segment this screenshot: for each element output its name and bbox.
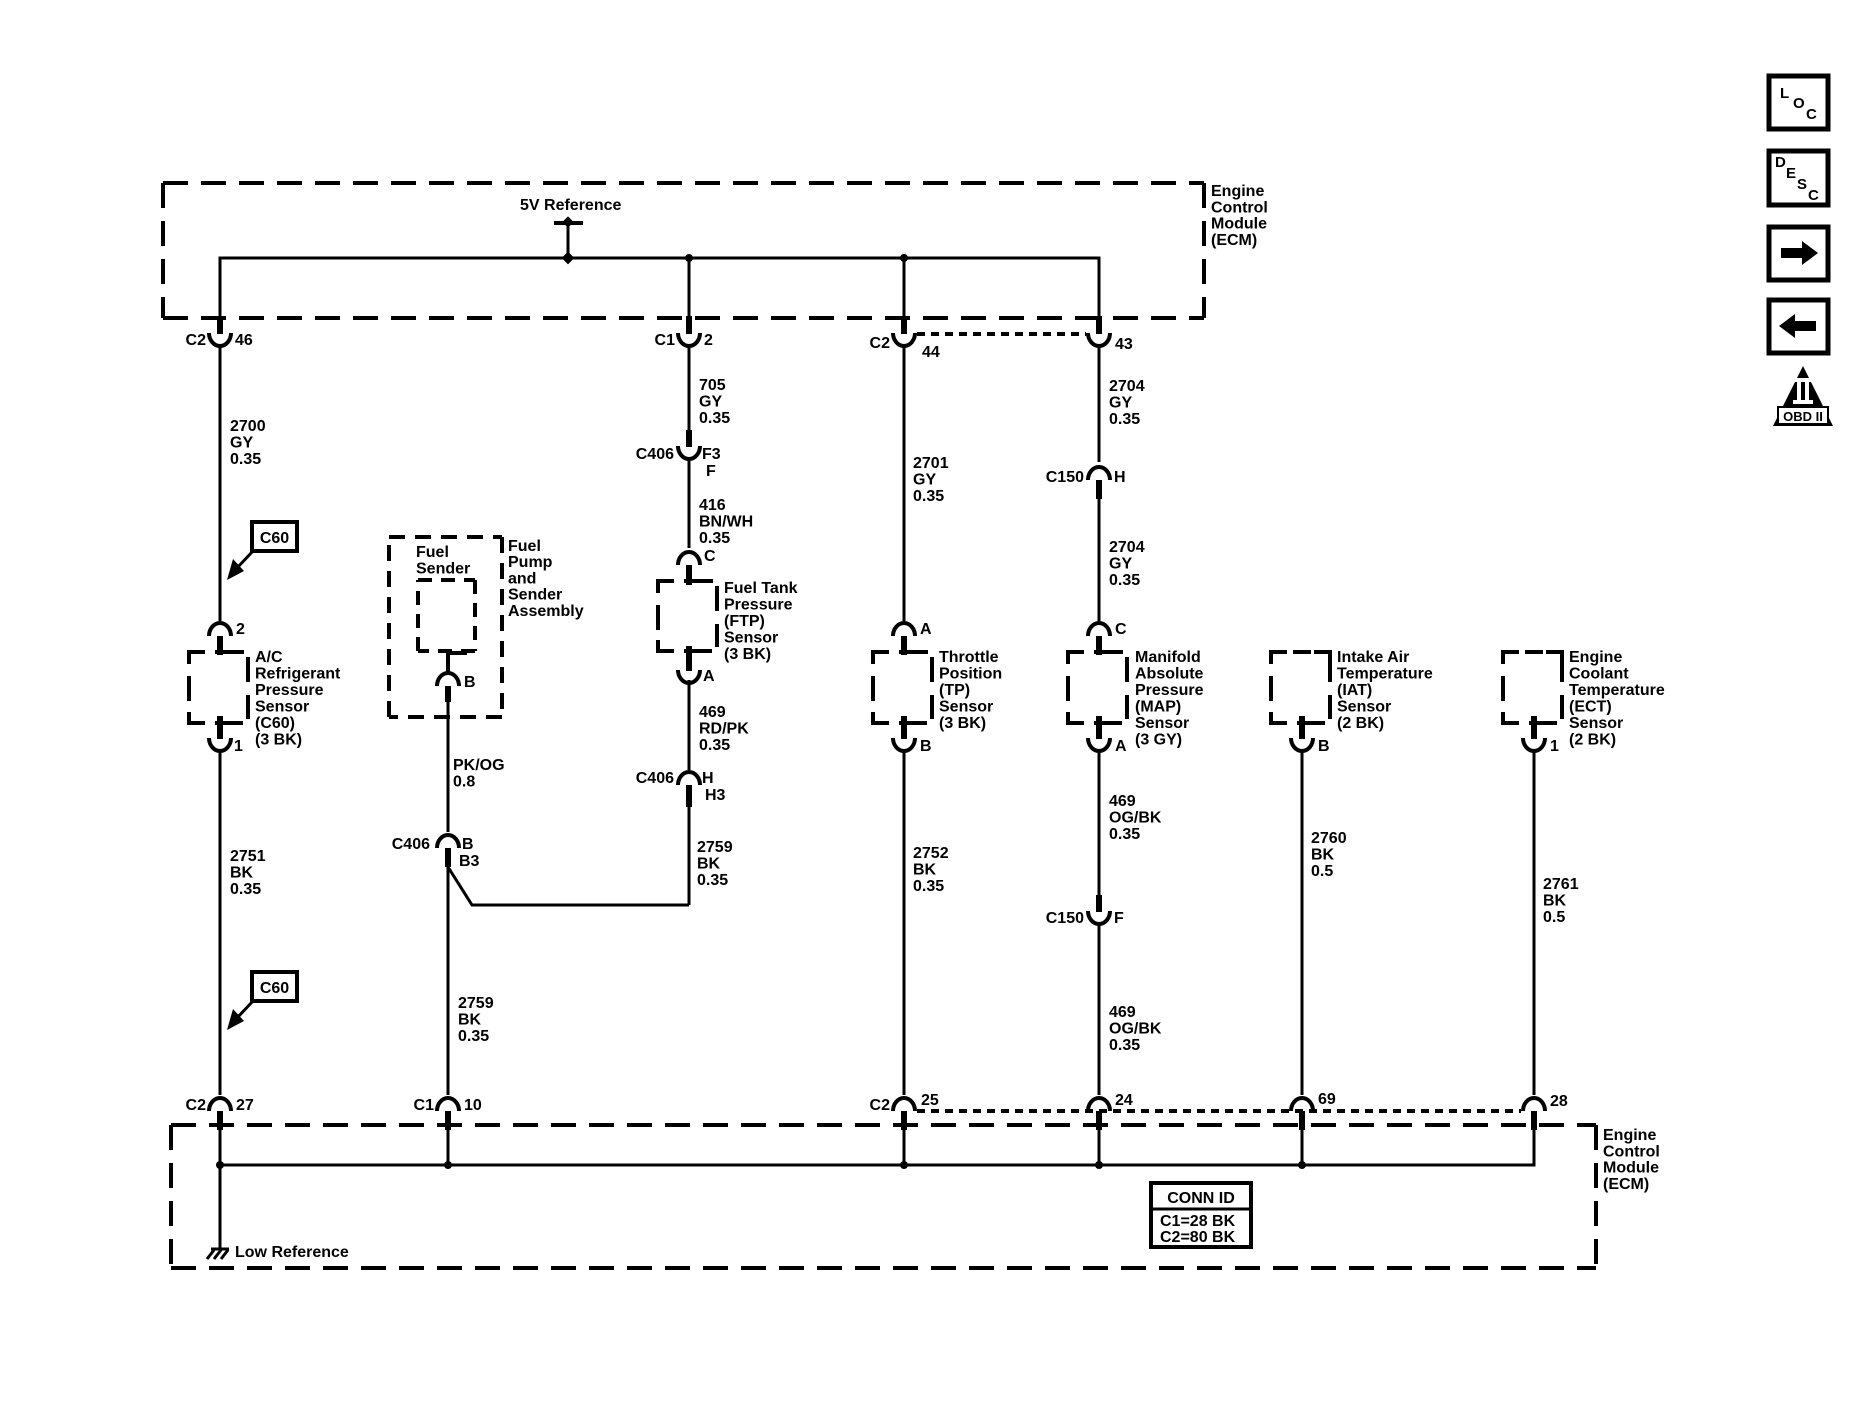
wire 469 OG/BK lower	[1098, 924, 1101, 1095]
svg-text:0.35: 0.35	[1109, 411, 1140, 428]
svg-text:GY: GY	[913, 472, 936, 489]
svg-text:C: C	[1115, 621, 1127, 638]
connector C406 B	[437, 835, 459, 848]
svg-text:C2: C2	[186, 332, 207, 349]
svg-text:(FTP): (FTP)	[724, 613, 765, 630]
connector C at MAP sensor	[1088, 623, 1110, 636]
svg-text:Absolute: Absolute	[1135, 666, 1204, 683]
connector C1 pin 10	[437, 1098, 459, 1111]
svg-text:O: O	[1793, 95, 1805, 112]
connector B at IAT sensor	[1299, 716, 1305, 739]
svg-text:0.35: 0.35	[913, 878, 944, 895]
svg-text:D: D	[1775, 154, 1786, 171]
IAT sensor dashed box	[1271, 652, 1287, 664]
svg-text:OBD II: OBD II	[1783, 409, 1823, 424]
svg-text:Temperature: Temperature	[1569, 682, 1665, 699]
svg-text:C150: C150	[1046, 910, 1084, 927]
C60 callout box 2	[252, 972, 297, 1001]
wire 2759 BK col2	[447, 867, 450, 1095]
connector B fuel sender	[437, 673, 459, 686]
svg-text:Sensor: Sensor	[1135, 715, 1189, 732]
svg-text:GY: GY	[1109, 395, 1132, 412]
svg-text:469: 469	[699, 704, 726, 721]
svg-text:BK: BK	[458, 1012, 482, 1029]
next arrow button	[1769, 227, 1828, 280]
wire sender to connector B	[448, 653, 467, 675]
svg-text:Throttle: Throttle	[939, 649, 999, 666]
svg-text:0.8: 0.8	[453, 774, 475, 791]
dotted link 25-24-69-28	[917, 1109, 1521, 1113]
back arrow button	[1769, 300, 1828, 353]
svg-text:L: L	[1780, 85, 1789, 102]
svg-text:BK: BK	[1543, 893, 1567, 910]
svg-text:0.35: 0.35	[230, 451, 261, 468]
wire 2704 GY upper	[1098, 347, 1101, 462]
connector A at FTP sensor	[686, 646, 692, 671]
svg-text:2760: 2760	[1311, 830, 1347, 847]
svg-text:C60: C60	[260, 530, 289, 547]
svg-text:Sender: Sender	[508, 587, 562, 604]
connector pin 69	[1291, 1098, 1313, 1111]
svg-text:C150: C150	[1046, 469, 1084, 486]
svg-text:H3: H3	[705, 787, 726, 804]
MAP sensor dashed box	[1068, 652, 1084, 664]
wire 2751 BK	[219, 751, 222, 1095]
wire 2760 BK	[1301, 751, 1304, 1095]
svg-text:0.35: 0.35	[697, 872, 728, 889]
svg-text:C406: C406	[636, 770, 674, 787]
connector C1 pin 2	[686, 316, 692, 334]
svg-text:B: B	[920, 738, 932, 755]
wire to ground	[219, 1165, 222, 1249]
wire 2759 BK col3	[688, 806, 691, 905]
wire C2-44 drop from bus	[903, 258, 906, 318]
connector 1 at A/C sensor	[217, 716, 223, 739]
connector C150 H	[1088, 467, 1110, 480]
svg-text:69: 69	[1318, 1091, 1336, 1108]
connector A at TP sensor	[893, 623, 915, 636]
svg-text:2: 2	[236, 621, 245, 638]
dotted link 44-43	[917, 332, 1086, 336]
fuel sender dashed box	[418, 578, 475, 582]
svg-text:27: 27	[236, 1097, 254, 1114]
junction bus col3	[685, 254, 693, 262]
wire 2704 GY lower	[1098, 499, 1101, 621]
svg-text:B3: B3	[459, 853, 480, 870]
svg-text:0.35: 0.35	[699, 530, 730, 547]
C60 arrow 1	[236, 551, 253, 569]
svg-text:1: 1	[234, 738, 243, 755]
svg-text:2759: 2759	[458, 995, 494, 1012]
wire C1-2 drop from bus	[688, 258, 691, 318]
svg-text:C406: C406	[636, 446, 674, 463]
svg-text:BK: BK	[1311, 847, 1335, 864]
svg-text:Module: Module	[1603, 1160, 1659, 1177]
svg-text:BN/WH: BN/WH	[699, 514, 753, 531]
svg-text:F: F	[1114, 910, 1124, 927]
svg-text:C406: C406	[392, 836, 430, 853]
svg-text:705: 705	[699, 377, 726, 394]
wire 2701 GY	[903, 347, 906, 621]
svg-text:Intake Air: Intake Air	[1337, 649, 1409, 666]
wire to low ref bus col1	[219, 1130, 222, 1165]
svg-text:Low Reference: Low Reference	[235, 1244, 349, 1261]
connector B at TP sensor	[901, 716, 907, 739]
svg-text:GY: GY	[1109, 556, 1132, 573]
svg-text:Engine: Engine	[1211, 183, 1264, 200]
svg-text:46: 46	[235, 332, 253, 349]
LOC button	[1769, 76, 1828, 129]
svg-text:C: C	[704, 548, 716, 565]
svg-text:2704: 2704	[1109, 378, 1145, 395]
wire to low ref bus col4	[903, 1130, 906, 1165]
svg-text:(3 BK): (3 BK)	[724, 646, 771, 663]
wire 2761 BK	[1533, 751, 1536, 1095]
A/C sensor dashed box	[189, 652, 205, 664]
connector C2 pin 27	[209, 1098, 231, 1111]
svg-text:Coolant: Coolant	[1569, 666, 1629, 683]
wire 469 OG/BK upper	[1098, 751, 1101, 897]
svg-text:44: 44	[922, 344, 940, 361]
svg-text:(C60): (C60)	[255, 715, 295, 732]
connector pin 24	[1088, 1098, 1110, 1111]
svg-text:43: 43	[1115, 336, 1133, 353]
svg-text:2700: 2700	[230, 418, 266, 435]
svg-text:GY: GY	[230, 435, 253, 452]
svg-text:0.35: 0.35	[1109, 1037, 1140, 1054]
svg-text:A: A	[920, 621, 932, 638]
svg-text:Sensor: Sensor	[255, 699, 309, 716]
branch wire to FTP low ref	[448, 867, 689, 905]
svg-text:2704: 2704	[1109, 539, 1145, 556]
svg-text:Pressure: Pressure	[724, 597, 793, 614]
svg-text:Sensor: Sensor	[724, 630, 778, 647]
svg-text:Pump: Pump	[508, 554, 553, 571]
svg-text:C60: C60	[260, 980, 289, 997]
svg-text:2759: 2759	[697, 839, 733, 856]
svg-text:B: B	[462, 836, 474, 853]
wire 705 GY	[688, 347, 691, 432]
svg-text:C1=28 BK: C1=28 BK	[1160, 1213, 1236, 1230]
svg-text:GY: GY	[699, 394, 722, 411]
svg-text:C: C	[1808, 187, 1819, 204]
connector C150 F	[1096, 895, 1102, 912]
svg-text:Sensor: Sensor	[1337, 699, 1391, 716]
svg-text:Engine: Engine	[1569, 649, 1622, 666]
svg-text:Fuel: Fuel	[416, 544, 449, 561]
svg-text:0.35: 0.35	[458, 1028, 489, 1045]
svg-text:(2 BK): (2 BK)	[1569, 732, 1616, 749]
svg-text:0.35: 0.35	[699, 410, 730, 427]
svg-text:E: E	[1786, 165, 1796, 182]
5V reference bus wire	[220, 258, 1099, 318]
TP sensor dashed box	[873, 652, 889, 664]
junction 5V stub to bus	[562, 252, 575, 265]
5V reference stub	[554, 221, 583, 225]
svg-text:28: 28	[1550, 1093, 1568, 1110]
wire 2700 GY	[219, 347, 222, 621]
connector 2 at A/C sensor	[209, 623, 231, 636]
ECM module top dashed box	[163, 181, 1204, 185]
svg-text:(IAT): (IAT)	[1337, 682, 1372, 699]
FTP sensor dashed box	[658, 581, 674, 593]
svg-text:(MAP): (MAP)	[1135, 699, 1181, 716]
junction low ref col5	[1095, 1161, 1103, 1169]
connector pin 28	[1523, 1098, 1545, 1111]
svg-text:A: A	[1115, 738, 1127, 755]
ground low reference	[211, 1248, 229, 1251]
connector A at MAP sensor	[1096, 716, 1102, 739]
svg-text:BK: BK	[913, 862, 937, 879]
svg-text:1: 1	[1550, 738, 1559, 755]
svg-text:C2=80 BK: C2=80 BK	[1160, 1229, 1236, 1246]
svg-text:(3 BK): (3 BK)	[255, 732, 302, 749]
svg-text:Control: Control	[1211, 199, 1268, 216]
svg-text:S: S	[1797, 176, 1807, 193]
svg-text:Engine: Engine	[1603, 1127, 1656, 1144]
junction low ref col6	[1298, 1161, 1306, 1169]
svg-text:Sensor: Sensor	[1569, 715, 1623, 732]
svg-text:Sender: Sender	[416, 561, 470, 578]
svg-text:F: F	[706, 463, 716, 480]
wire to low ref bus col2	[447, 1130, 450, 1165]
svg-text:25: 25	[921, 1092, 939, 1109]
svg-text:(3 BK): (3 BK)	[939, 715, 986, 732]
svg-text:(3 GY): (3 GY)	[1135, 732, 1182, 749]
svg-text:(2 BK): (2 BK)	[1337, 715, 1384, 732]
svg-text:Module: Module	[1211, 216, 1267, 233]
svg-text:Pressure: Pressure	[1135, 682, 1204, 699]
C60 arrow 2	[236, 1001, 253, 1019]
svg-text:Fuel Tank: Fuel Tank	[724, 580, 798, 597]
svg-text:0.35: 0.35	[230, 881, 261, 898]
svg-text:0.35: 0.35	[699, 737, 730, 754]
svg-text:Pressure: Pressure	[255, 682, 324, 699]
connector C2 pin 46	[217, 316, 223, 334]
connector 1 at ECT sensor	[1531, 716, 1537, 739]
svg-text:Control: Control	[1603, 1143, 1660, 1160]
ECM module bottom dashed box	[171, 1123, 1596, 1127]
svg-text:Sensor: Sensor	[939, 699, 993, 716]
svg-text:OG/BK: OG/BK	[1109, 1021, 1162, 1038]
low reference bus wire	[220, 1130, 1534, 1165]
C60 callout box 1	[252, 522, 297, 551]
wire 469 RD/PK	[688, 680, 691, 770]
wire to low ref bus col6	[1301, 1130, 1304, 1165]
svg-text:0.35: 0.35	[1109, 826, 1140, 843]
svg-text:2751: 2751	[230, 848, 266, 865]
svg-text:10: 10	[464, 1097, 482, 1114]
svg-text:2752: 2752	[913, 845, 949, 862]
svg-text:24: 24	[1115, 1092, 1133, 1109]
svg-text:Position: Position	[939, 666, 1002, 683]
svg-text:RD/PK: RD/PK	[699, 721, 749, 738]
svg-text:Assembly: Assembly	[508, 603, 584, 620]
svg-text:5V Reference: 5V Reference	[520, 197, 621, 214]
svg-text:469: 469	[1109, 1004, 1136, 1021]
svg-text:A: A	[703, 668, 715, 685]
svg-text:CONN ID: CONN ID	[1167, 1190, 1235, 1207]
wire to low ref bus col5	[1098, 1130, 1101, 1165]
svg-text:Manifold: Manifold	[1135, 649, 1201, 666]
svg-text:C2: C2	[870, 1097, 891, 1114]
svg-text:Refrigerant: Refrigerant	[255, 666, 341, 683]
connector C2 pin 25	[893, 1098, 915, 1111]
svg-text:BK: BK	[697, 856, 721, 873]
svg-text:H: H	[702, 770, 714, 787]
svg-text:2761: 2761	[1543, 876, 1579, 893]
svg-text:0.5: 0.5	[1543, 909, 1565, 926]
svg-text:(TP): (TP)	[939, 682, 970, 699]
connector C at FTP sensor	[678, 552, 700, 565]
OBD II triangle icon	[1773, 366, 1833, 426]
svg-text:B: B	[1318, 738, 1330, 755]
svg-text:Temperature: Temperature	[1337, 666, 1433, 683]
DESC button	[1769, 151, 1828, 205]
svg-text:(ECM): (ECM)	[1603, 1176, 1649, 1193]
svg-text:(ECT): (ECT)	[1569, 699, 1612, 716]
connector C406 H	[678, 772, 700, 785]
svg-text:C2: C2	[870, 335, 891, 352]
svg-text:B: B	[464, 674, 476, 691]
junction low ref col2	[444, 1161, 452, 1169]
svg-text:A/C: A/C	[255, 649, 283, 666]
svg-text:(ECM): (ECM)	[1211, 232, 1257, 249]
svg-text:and: and	[508, 570, 536, 587]
svg-text:469: 469	[1109, 793, 1136, 810]
svg-text:0.35: 0.35	[1109, 572, 1140, 589]
connector C2 pin 44	[901, 316, 907, 334]
svg-text:416: 416	[699, 497, 726, 514]
junction low ref col1	[216, 1161, 224, 1169]
CONN ID table	[1151, 1183, 1251, 1247]
svg-text:2701: 2701	[913, 455, 949, 472]
ECT sensor dashed box	[1503, 652, 1519, 664]
svg-text:C2: C2	[186, 1097, 207, 1114]
svg-text:2: 2	[704, 332, 713, 349]
fuel pump assembly dashed box	[389, 535, 502, 539]
svg-text:F3: F3	[702, 446, 721, 463]
connector C406 F3	[686, 430, 692, 447]
junction low ref col4	[900, 1161, 908, 1169]
svg-text:0.35: 0.35	[913, 488, 944, 505]
wire PK/OG	[447, 702, 450, 832]
svg-text:C1: C1	[655, 332, 676, 349]
svg-text:C: C	[1806, 106, 1817, 123]
svg-text:C1: C1	[414, 1097, 435, 1114]
wire 2752 BK	[903, 751, 906, 1095]
wire 416 BN/WH	[688, 459, 691, 548]
svg-text:H: H	[1114, 469, 1126, 486]
svg-text:OG/BK: OG/BK	[1109, 810, 1162, 827]
svg-text:Fuel: Fuel	[508, 538, 541, 555]
svg-text:PK/OG: PK/OG	[453, 757, 505, 774]
junction bus col4	[900, 254, 908, 262]
connector pin 43	[1096, 316, 1102, 334]
svg-text:0.5: 0.5	[1311, 863, 1333, 880]
svg-text:BK: BK	[230, 865, 254, 882]
